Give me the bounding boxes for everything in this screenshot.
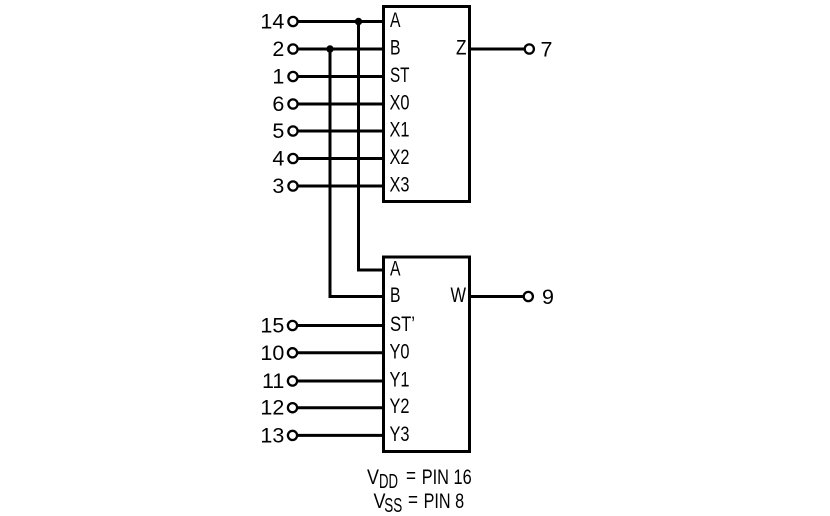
wire A-bus down to U2 A [359,22,385,271]
wire U2 W to pin 9 [469,295,524,298]
svg-text:10: 10 [260,341,284,365]
svg-text:6: 6 [272,92,284,116]
pin 13 terminal [288,431,297,440]
svg-text:Y1: Y1 [390,368,410,392]
note VSS = PIN 8 [374,488,465,516]
pin 11 terminal [288,376,297,385]
pin 2 terminal [288,44,297,53]
wire pin 1 to U1 ST [298,75,385,78]
svg-text:2: 2 [272,37,284,61]
pin 10 terminal [288,348,297,357]
pin 6 terminal [288,99,297,108]
svg-text:B: B [390,36,401,60]
wire pin 15 to U2 ST' [297,324,384,327]
svg-text:X0: X0 [390,91,410,115]
wire pin 5 to U1 X1 [298,130,385,133]
wire pin 4 to U1 X2 [298,157,385,160]
svg-text:W: W [451,283,467,307]
pin 3 terminal [288,181,297,190]
multiplexer U2 (bottom MUX block) [384,257,470,452]
wire pin 2 to U1 B [298,48,385,51]
wire U1 Z to pin 7 [469,48,525,51]
svg-text:=: = [406,464,416,488]
pin 1 terminal [288,72,297,81]
svg-text:=: = [408,488,418,512]
svg-text:X2: X2 [390,145,410,169]
junction node B-bus [326,45,333,52]
svg-text:Z: Z [456,36,467,60]
svg-text:SS: SS [384,495,402,516]
svg-text:14: 14 [260,10,284,34]
svg-text:7: 7 [541,37,553,61]
svg-text:Y3: Y3 [390,422,410,446]
svg-text:9: 9 [542,285,554,309]
wire pin 14 to U1 A [298,20,385,23]
wire pin 6 to U1 X0 [298,103,385,106]
svg-text:ST’: ST’ [390,312,415,336]
pin 5 terminal [288,126,297,135]
svg-text:V: V [367,465,380,489]
svg-text:X3: X3 [390,173,410,197]
svg-text:A: A [390,8,401,32]
svg-text:12: 12 [260,396,284,420]
svg-text:5: 5 [272,119,284,143]
wire pin 13 to U2 Y3 [297,434,384,437]
pin 14 terminal [288,17,297,26]
pin 12 terminal [288,403,297,412]
pin 7 terminal [525,44,534,53]
wire pin 12 to U2 Y2 [297,406,384,409]
junction node A-bus [355,18,362,25]
wire pin 10 to U2 Y0 [297,351,384,354]
svg-text:3: 3 [272,174,284,198]
svg-text:X1: X1 [390,118,410,142]
note VDD = PIN 16 [367,464,472,494]
multiplexer U1 (top MUX block) [384,7,470,202]
svg-text:PIN 8: PIN 8 [424,489,465,513]
svg-text:Y0: Y0 [390,339,410,363]
wire pin 3 to U1 X3 [298,185,385,188]
svg-text:PIN 16: PIN 16 [422,465,472,489]
wire B-bus down to U2 B [330,49,384,297]
pin 15 terminal [288,321,297,330]
wire pin 11 to U2 Y1 [297,380,384,383]
svg-text:4: 4 [272,147,284,171]
pin 4 terminal [288,154,297,163]
pin 9 terminal [524,292,533,301]
svg-text:1: 1 [272,65,284,89]
svg-text:Y2: Y2 [390,394,410,418]
svg-text:13: 13 [260,423,284,447]
svg-text:B: B [390,283,401,307]
svg-text:A: A [390,257,401,281]
svg-text:11: 11 [262,369,284,393]
svg-text:ST: ST [390,63,410,87]
svg-text:15: 15 [260,314,284,338]
